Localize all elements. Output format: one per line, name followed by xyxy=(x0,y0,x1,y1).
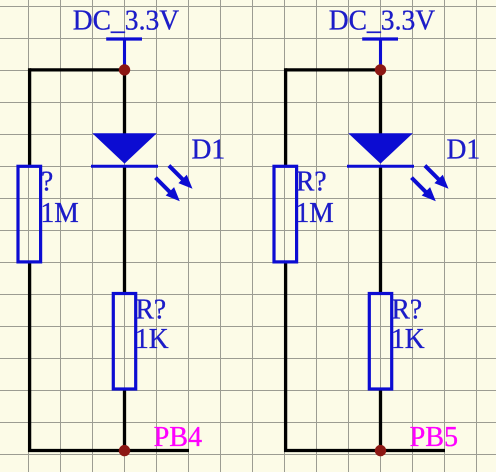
svg-text:?: ? xyxy=(41,166,53,198)
svg-text:1M: 1M xyxy=(296,197,334,229)
svg-text:R?: R? xyxy=(392,294,423,326)
svg-text:DC_3.3V: DC_3.3V xyxy=(73,5,180,37)
svg-text:PB5: PB5 xyxy=(410,422,458,453)
svg-text:D1: D1 xyxy=(192,134,226,166)
svg-text:D1: D1 xyxy=(447,134,481,166)
svg-text:R?: R? xyxy=(136,294,167,326)
svg-text:DC_3.3V: DC_3.3V xyxy=(329,5,436,37)
svg-text:R?: R? xyxy=(296,166,327,198)
svg-text:1M: 1M xyxy=(41,197,79,229)
svg-text:1K: 1K xyxy=(135,323,169,355)
svg-text:1K: 1K xyxy=(391,323,425,355)
svg-text:PB4: PB4 xyxy=(154,422,202,453)
